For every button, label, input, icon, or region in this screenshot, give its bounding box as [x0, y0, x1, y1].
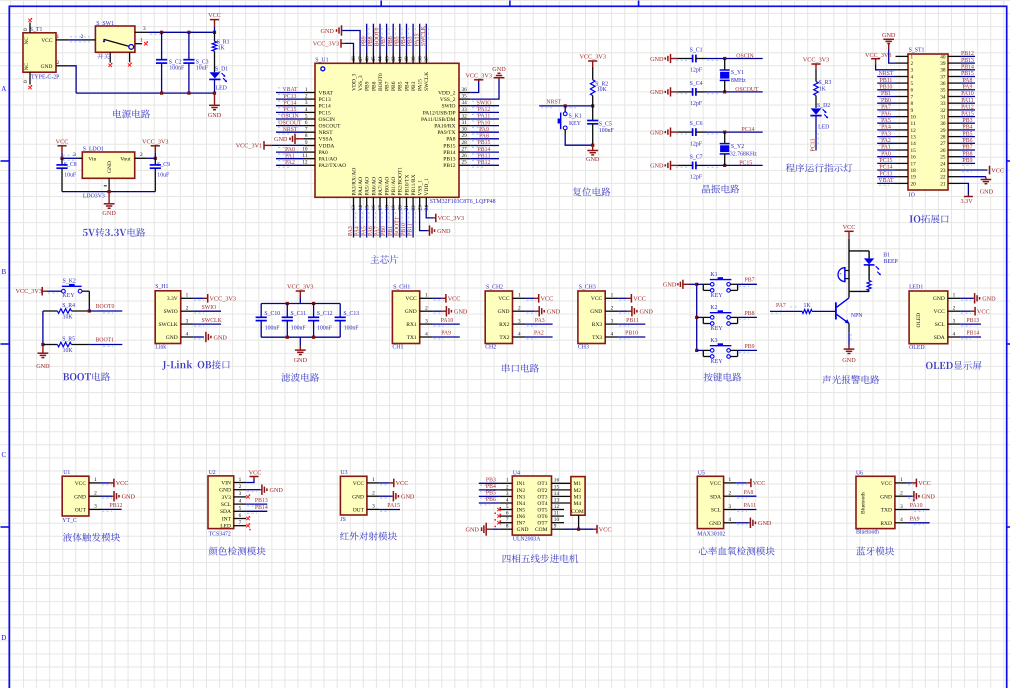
svg-text:PB13: PB13 — [961, 58, 974, 64]
wire/net PB13 — [470, 153, 499, 160]
label CH1 — [392, 345, 403, 351]
svg-text:BEEP: BEEP — [884, 259, 898, 265]
svg-text:10: 10 — [911, 115, 917, 121]
svg-text:GND: GND — [982, 296, 996, 303]
svg-text:SCL: SCL — [935, 322, 946, 328]
svg-text:PC14: PC14 — [742, 127, 755, 133]
resistor R1 — [212, 32, 229, 72]
svg-text:VCC: VCC — [396, 480, 409, 487]
svg-text:4: 4 — [911, 74, 914, 80]
ground GND (filter) — [294, 337, 308, 364]
svg-text:OT3: OT3 — [537, 494, 547, 500]
svg-text:28: 28 — [462, 140, 468, 146]
svg-text:U6: U6 — [856, 470, 863, 476]
wire/net PB11 (ST1 left) — [877, 78, 895, 85]
svg-text:4: 4 — [518, 331, 521, 337]
connector T1 TYPE-C-2P — [23, 33, 56, 72]
svg-text:PB15: PB15 — [443, 143, 455, 149]
header ST1 pin 23 — [940, 168, 960, 174]
svg-text:PB0: PB0 — [881, 98, 891, 104]
ground GND (U5) — [736, 518, 772, 528]
junction — [41, 343, 44, 346]
svg-text:OUT: OUT — [75, 508, 87, 514]
title IO拓展口 — [910, 214, 949, 223]
svg-text:5: 5 — [911, 81, 914, 87]
wire filter top rail — [261, 303, 340, 305]
svg-text:M3: M3 — [574, 494, 582, 500]
power port VCC (S_CH3) — [618, 294, 646, 303]
svg-text:PA11/USB/DM: PA11/USB/DM — [421, 117, 456, 123]
wire/net PB5 (top) — [394, 24, 402, 53]
svg-text:39: 39 — [411, 56, 417, 62]
U3 pin 2 — [367, 491, 380, 497]
svg-text:45: 45 — [371, 56, 377, 62]
svg-text:ULN2003A: ULN2003A — [513, 537, 542, 543]
power port VCC_3V3 (H1) — [193, 294, 236, 303]
header ST1 pin 34 — [940, 94, 960, 100]
svg-text:PB11/RX: PB11/RX — [411, 174, 417, 195]
wire/net PA6 (ST1 left) — [877, 111, 895, 118]
svg-text:PB12: PB12 — [110, 503, 123, 509]
svg-text:VBAT: VBAT — [319, 90, 334, 96]
mcu U1 pin 26 PB13 — [443, 153, 470, 163]
svg-text:IN6: IN6 — [517, 514, 526, 520]
wire/net OSCIN — [276, 114, 304, 121]
SW1 bottom pin a — [109, 52, 111, 62]
wire T1 GND down — [68, 66, 76, 93]
wire LDO bottom rail — [62, 191, 155, 193]
power port VCC_3V3 (ST1 pin3) — [865, 52, 896, 70]
wire/net PA5 (bottom) — [361, 208, 369, 238]
header ST1 pin 15 — [896, 148, 917, 154]
S_CH2 pin 2 — [513, 306, 526, 312]
svg-text:GND: GND — [274, 136, 288, 143]
svg-text:VCC: VCC — [56, 138, 69, 145]
svg-text:3: 3 — [506, 491, 509, 497]
ground GND (ST1 pin22) — [961, 177, 994, 196]
wire/net PB1 (bottom) — [388, 208, 396, 238]
svg-text:VCC: VCC — [116, 480, 129, 487]
label TCS3472 — [209, 532, 231, 538]
svg-text:SWCLK: SWCLK — [158, 322, 177, 328]
label IO — [909, 193, 916, 199]
power port 3.3V (ST1 pin21) — [960, 183, 973, 204]
power port VCC (LDO) — [56, 138, 69, 158]
svg-text:S_K2: S_K2 — [63, 278, 76, 284]
wire/net SWCLK (top) — [421, 24, 429, 53]
svg-text:42: 42 — [391, 56, 397, 62]
wire/net PB12 (U1) — [102, 503, 123, 511]
svg-text:1: 1 — [305, 87, 308, 93]
wire/net PB3 (top) — [408, 24, 416, 53]
svg-text:VCC_3V3: VCC_3V3 — [438, 215, 464, 222]
svg-text:PA12: PA12 — [478, 107, 491, 113]
svg-text:PB9: PB9 — [365, 81, 371, 91]
U4 pin 14 — [552, 491, 571, 497]
mcu U1 pin 44 BOOT0 (top) — [378, 53, 384, 91]
svg-text:25: 25 — [940, 155, 946, 161]
wire/net BOOT0 (top) — [375, 24, 383, 53]
svg-text:NRST: NRST — [283, 127, 298, 133]
mcu U1 pin 23 VSS_1 (bottom) — [417, 180, 423, 211]
U2 pin 2 — [234, 484, 247, 490]
svg-text:PB5: PB5 — [486, 491, 496, 497]
svg-text:43: 43 — [384, 56, 390, 62]
mcu U1 pin 48 VDD_3 (top) — [351, 53, 357, 91]
svg-text:PB7: PB7 — [745, 278, 755, 284]
svg-text:GND: GND — [650, 129, 664, 136]
mcu U1 pin 6 OSCOUT — [304, 120, 341, 130]
svg-text:2: 2 — [94, 491, 97, 497]
svg-text:SCL: SCL — [221, 502, 232, 508]
svg-text:OSCIN: OSCIN — [736, 54, 754, 60]
title 程序运行指示灯 — [786, 163, 853, 172]
S_CH2 pin 1 — [513, 293, 526, 299]
junction — [723, 57, 726, 60]
label S_T1 — [30, 27, 43, 33]
svg-text:SWCLK: SWCLK — [421, 25, 427, 46]
svg-text:PA1/AO: PA1/AO — [319, 157, 338, 163]
svg-text:S_Y1: S_Y1 — [731, 70, 744, 76]
U4 pin 9 — [552, 524, 565, 530]
svg-text:PC13: PC13 — [319, 97, 331, 103]
svg-text:38: 38 — [940, 68, 946, 74]
svg-text:PB4: PB4 — [404, 81, 410, 91]
svg-text:PA10: PA10 — [961, 91, 974, 97]
svg-text:PB10: PB10 — [880, 85, 893, 91]
svg-text:1: 1 — [57, 34, 60, 40]
capacitor S_C11 — [282, 304, 307, 338]
wire/net PB10 (bottom) — [401, 208, 409, 238]
junction — [286, 336, 289, 339]
U4 pin 16 — [552, 478, 571, 484]
label OLED — [909, 345, 924, 351]
svg-text:GND: GND — [547, 309, 561, 316]
svg-text:GND: GND — [454, 309, 468, 316]
wire keys vertical — [696, 284, 698, 350]
resistor (alarm LED) — [849, 265, 871, 292]
svg-text:10K: 10K — [597, 87, 608, 93]
svg-text:GND: GND — [437, 228, 451, 235]
wire/net PA9 — [470, 127, 499, 134]
label S_ST1 — [909, 48, 925, 54]
svg-text:GND: GND — [842, 357, 856, 364]
svg-text:1K: 1K — [819, 86, 827, 92]
wire/net VBAT — [276, 87, 304, 94]
title J-Link OB接口 — [162, 360, 230, 370]
svg-text:1: 1 — [239, 477, 242, 483]
svg-text:OLED: OLED — [909, 345, 924, 351]
net label OSCOUT — [735, 87, 759, 93]
wire/net PB7 (key) — [738, 278, 757, 287]
svg-text:36: 36 — [940, 81, 946, 87]
junction — [60, 157, 63, 160]
svg-text:PA9: PA9 — [441, 331, 451, 337]
header ST1 pin 32 — [940, 108, 960, 114]
svg-text:4: 4 — [953, 331, 956, 337]
svg-text:9: 9 — [305, 140, 308, 146]
mcu U1 pin 37 SWCLK (top) — [424, 53, 430, 91]
svg-text:16: 16 — [371, 205, 377, 211]
svg-text:PB14: PB14 — [966, 331, 979, 337]
title 晶振电路 — [702, 185, 739, 194]
svg-text:M4: M4 — [574, 501, 582, 507]
label U1 — [63, 470, 70, 476]
mcu U1 pin 9 VDDA — [304, 140, 334, 150]
ground GND (S_CH2) — [525, 306, 560, 316]
crystal Y2 32.768KHz — [720, 132, 758, 165]
svg-text:28: 28 — [940, 135, 946, 141]
svg-text:2: 2 — [186, 306, 189, 312]
transistor NPN — [836, 291, 863, 332]
wire/net PC14 (ST1 left) — [877, 165, 895, 172]
svg-text:TXD: TXD — [881, 508, 892, 514]
label U3 — [340, 470, 347, 476]
svg-text:PB1: PB1 — [881, 91, 891, 97]
svg-text:41: 41 — [398, 56, 404, 62]
svg-text:8: 8 — [506, 524, 509, 530]
svg-text:4: 4 — [611, 331, 614, 337]
wire/net PB14 (U2) — [246, 505, 268, 513]
svg-text:NC: NC — [24, 37, 30, 45]
svg-text:14: 14 — [554, 491, 560, 497]
svg-text:S_CH3: S_CH3 — [579, 284, 596, 290]
wire/net PB8 (top) — [368, 24, 376, 53]
wire/net PA7 (bottom) — [375, 208, 383, 238]
svg-text:VCC: VCC — [249, 470, 262, 477]
svg-text:S_H1: S_H1 — [155, 284, 168, 290]
svg-text:32.768KHz: 32.768KHz — [730, 151, 757, 157]
label S_SW1 — [96, 21, 114, 27]
svg-text:INT: INT — [222, 516, 232, 522]
svg-text:VCC: VCC — [881, 481, 893, 487]
wire/net PB12 — [470, 160, 499, 167]
svg-text:LDO3V3: LDO3V3 — [83, 193, 105, 199]
wire/net PC13 (ST1 left) — [877, 171, 895, 178]
mcu U1 pin 3 PC14 — [304, 100, 331, 110]
wire/net NRST — [276, 127, 304, 134]
svg-text:B1: B1 — [883, 252, 890, 258]
label S_CH1 — [393, 284, 410, 290]
ground GND (S_CH1) — [433, 306, 468, 316]
svg-text:7: 7 — [305, 127, 308, 133]
ground GND (H1) — [193, 332, 227, 342]
svg-text:S_C7: S_C7 — [690, 154, 703, 160]
svg-text:33: 33 — [940, 101, 946, 107]
svg-text:GND: GND — [709, 521, 721, 527]
net label PC14 — [742, 127, 755, 133]
svg-text:PB7: PB7 — [963, 145, 973, 151]
svg-text:4: 4 — [728, 517, 731, 523]
svg-text:B: B — [1, 268, 6, 276]
U3 pin 1 — [367, 477, 380, 483]
mcu U1 pin 16 PA6/AO (bottom) — [371, 177, 377, 211]
svg-text:24: 24 — [940, 161, 946, 167]
power port VCC_3V3 (filter) — [287, 284, 313, 304]
svg-text:1: 1 — [372, 477, 375, 483]
wire/net PA9 (U6) — [907, 517, 929, 525]
svg-text:PB5: PB5 — [963, 131, 973, 137]
mcu U1 pin 5 OSCIN — [304, 113, 335, 123]
svg-text:VCC: VCC — [933, 309, 945, 315]
svg-text:VCC: VCC — [75, 481, 87, 487]
U5 pin 4 — [724, 517, 737, 523]
svg-text:OSCIN: OSCIN — [319, 117, 336, 123]
svg-text:TX3: TX3 — [592, 335, 602, 341]
U5 pin 3 — [724, 504, 737, 510]
header ST1 pin 6 — [896, 88, 914, 94]
svg-text:GND: GND — [980, 189, 994, 196]
svg-text:6: 6 — [239, 513, 242, 519]
svg-text:OT2: OT2 — [537, 488, 547, 494]
svg-text:GND: GND — [405, 309, 417, 315]
svg-text:13: 13 — [554, 497, 560, 503]
wire/net OSCOUT — [276, 120, 304, 127]
svg-text:PB14: PB14 — [961, 65, 974, 71]
svg-text:1: 1 — [611, 293, 614, 299]
wire/net PC14 — [276, 100, 304, 107]
svg-text:PB10: PB10 — [401, 223, 407, 236]
mcu U1 pin 33 PA12/USB/DP — [423, 107, 471, 117]
wire/net PA11 (U5) — [736, 503, 756, 511]
wire/net PA11 (ST1 right) — [961, 98, 976, 105]
ground GND (reset) — [586, 145, 600, 163]
capacitor C9 — [150, 158, 170, 191]
svg-text:1: 1 — [518, 293, 521, 299]
U4 pin 15 — [552, 484, 571, 490]
svg-text:GND: GND — [640, 309, 654, 316]
svg-text:LED: LED — [220, 524, 231, 530]
svg-text:S_C12: S_C12 — [317, 311, 333, 317]
module U3 body — [340, 476, 367, 515]
wire/net PA1 (ST1 left) — [877, 145, 895, 152]
svg-text:37: 37 — [940, 74, 946, 80]
svg-text:3: 3 — [305, 100, 308, 106]
wire VCC rail top — [147, 32, 214, 34]
wire/net PB1 (ST1 left) — [877, 91, 895, 98]
ground GND (U2) — [246, 485, 283, 495]
mcu U1 pin 34 SWIO — [441, 100, 470, 110]
svg-text:PA6: PA6 — [881, 111, 891, 117]
svg-text:PA10/RX: PA10/RX — [434, 124, 455, 130]
svg-text:GND: GND — [36, 363, 50, 370]
svg-text:PC15: PC15 — [880, 158, 893, 164]
svg-text:S_C5: S_C5 — [599, 122, 612, 128]
svg-text:1: 1 — [506, 478, 509, 484]
svg-text:S_C2: S_C2 — [169, 59, 182, 65]
svg-text:PA15: PA15 — [387, 503, 400, 509]
header ST1 pin 27 — [940, 141, 960, 147]
T1 pin 2 GND — [56, 60, 68, 66]
svg-text:SDA: SDA — [934, 335, 945, 341]
wire/net PB15 (ST1 right) — [961, 71, 976, 78]
svg-text:4: 4 — [506, 497, 509, 503]
wire/net PB4 (top) — [401, 24, 409, 53]
header ST1 pin 39 — [940, 61, 960, 67]
svg-text:GND: GND — [498, 309, 510, 315]
wire/net PA0 — [276, 147, 304, 154]
svg-text:4: 4 — [900, 517, 903, 523]
wire/net PB13 (ST1 right) — [961, 58, 976, 65]
svg-text:PA9: PA9 — [963, 85, 973, 91]
svg-text:VCC: VCC — [208, 12, 221, 19]
svg-text:100nF: 100nF — [344, 326, 360, 332]
svg-text:9: 9 — [911, 108, 914, 114]
title 红外对射模块 — [340, 532, 397, 541]
svg-text:2: 2 — [900, 491, 903, 497]
svg-text:5: 5 — [305, 113, 308, 119]
mcu U1 pin 40 PB4 (top) — [404, 53, 410, 91]
U4 pin 10 — [552, 517, 565, 523]
mcu U1 pin 28 PB15 — [443, 140, 470, 150]
title 四相五线步进电机 — [503, 554, 579, 563]
wire/net PA9 (S_CH1) — [433, 331, 460, 339]
svg-text:C: C — [1, 451, 6, 459]
svg-text:NC: NC — [24, 63, 30, 71]
header ST1 pin 14 — [896, 141, 917, 147]
wire/net PB4 (ST1 right) — [961, 125, 976, 132]
mcu U1 pin 15 PA5/AO (bottom) — [364, 177, 370, 211]
svg-text:VCC: VCC — [633, 296, 646, 303]
wire/net SWIO — [470, 100, 499, 107]
S_CH3 pin 4 — [605, 331, 618, 337]
title 滤波电路 — [281, 373, 319, 382]
LED (alarm) — [864, 251, 881, 275]
title 复位电路 — [573, 187, 611, 196]
resistor R5 — [43, 337, 89, 355]
wire/net PC15 (ST1 left) — [877, 158, 895, 165]
svg-text:PA15: PA15 — [414, 34, 420, 47]
svg-text:IN5: IN5 — [517, 507, 526, 513]
svg-text:M1: M1 — [574, 481, 582, 487]
svg-text:PB7: PB7 — [385, 81, 391, 91]
wire/net PA7 with resistor 1K — [770, 303, 836, 313]
svg-text:4: 4 — [239, 498, 242, 504]
svg-text:34: 34 — [462, 100, 468, 106]
svg-text:PA12/USB/DP: PA12/USB/DP — [423, 110, 456, 116]
svg-text:PA1: PA1 — [881, 145, 891, 151]
svg-text:PA4/AO: PA4/AO — [358, 177, 364, 196]
svg-text:PA2/TX/AO: PA2/TX/AO — [319, 163, 347, 169]
U1 pin 3 — [89, 504, 102, 510]
U1 pin 1 — [89, 477, 102, 483]
svg-text:PB8: PB8 — [371, 81, 377, 91]
svg-text:48: 48 — [351, 56, 357, 62]
wire/net PA9 (ST1 right) — [961, 85, 976, 92]
svg-text:S_D1: S_D1 — [215, 67, 228, 73]
svg-text:PB12: PB12 — [478, 160, 491, 166]
label U6 — [856, 470, 863, 476]
label U4 — [513, 471, 520, 477]
svg-text:PB6: PB6 — [391, 81, 397, 91]
wire/net PC15 — [276, 107, 304, 114]
svg-text:SWCLK: SWCLK — [424, 72, 430, 91]
key K1 — [695, 272, 738, 299]
ground GND (VSS_1) — [420, 208, 451, 236]
svg-text:GND: GND — [590, 309, 602, 315]
mcu U1 pin 7 NRST — [304, 127, 333, 137]
svg-text:13: 13 — [351, 205, 357, 211]
mcu U1 pin 46 PB9 (top) — [364, 53, 370, 91]
wire/net PB9 (top) — [361, 24, 369, 53]
svg-text:PB3: PB3 — [408, 36, 414, 46]
capacitor S_C6 — [671, 121, 763, 147]
ground GND (BOOT) — [36, 345, 50, 370]
header ST1 pin 21 — [940, 181, 960, 187]
wire/net PA11 — [470, 114, 499, 121]
svg-text:12pF: 12pF — [690, 68, 703, 74]
svg-text:Bluetooth: Bluetooth — [856, 529, 879, 535]
